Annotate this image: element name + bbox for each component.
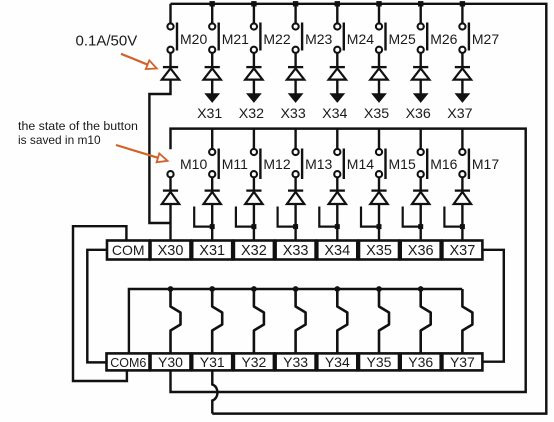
svg-text:Y35: Y35 (367, 354, 392, 370)
svg-text:Y31: Y31 (200, 354, 225, 370)
svg-text:Y32: Y32 (241, 354, 266, 370)
svg-text:Y36: Y36 (408, 354, 433, 370)
svg-text:X32: X32 (239, 106, 264, 122)
svg-text:M11: M11 (222, 156, 248, 172)
svg-text:M14: M14 (347, 156, 374, 172)
svg-text:X31: X31 (199, 243, 225, 259)
svg-text:Y37: Y37 (450, 354, 475, 370)
svg-text:Y33: Y33 (283, 354, 308, 370)
svg-text:X36: X36 (408, 243, 434, 259)
svg-text:X30: X30 (158, 243, 184, 259)
svg-text:M17: M17 (472, 156, 499, 172)
svg-text:M20: M20 (180, 31, 207, 47)
svg-text:X34: X34 (324, 243, 350, 259)
svg-text:X33: X33 (280, 106, 305, 122)
svg-text:X34: X34 (322, 106, 347, 122)
svg-text:is saved in m10: is saved in m10 (18, 133, 101, 147)
svg-text:X37: X37 (449, 243, 475, 259)
svg-text:M16: M16 (430, 156, 457, 172)
svg-text:M25: M25 (389, 31, 416, 47)
svg-text:M24: M24 (347, 31, 374, 47)
svg-text:M21: M21 (222, 31, 249, 47)
svg-text:M27: M27 (472, 31, 499, 47)
svg-text:0.1A/50V: 0.1A/50V (76, 33, 138, 50)
svg-text:M10: M10 (180, 156, 207, 172)
svg-text:X35: X35 (366, 243, 392, 259)
svg-text:X33: X33 (283, 243, 309, 259)
svg-text:X35: X35 (364, 106, 389, 122)
svg-text:X36: X36 (406, 106, 431, 122)
svg-text:X31: X31 (197, 106, 222, 122)
svg-text:COM: COM (112, 242, 145, 258)
svg-text:the state of the button: the state of the button (18, 119, 138, 133)
svg-text:M26: M26 (430, 31, 457, 47)
svg-text:M15: M15 (389, 156, 416, 172)
svg-text:Y30: Y30 (158, 354, 183, 370)
svg-text:COM6: COM6 (110, 356, 146, 370)
svg-text:M12: M12 (263, 156, 290, 172)
svg-text:M13: M13 (305, 156, 332, 172)
svg-text:Y34: Y34 (325, 354, 350, 370)
svg-text:X32: X32 (241, 243, 267, 259)
svg-text:M23: M23 (305, 31, 332, 47)
svg-text:M22: M22 (263, 31, 290, 47)
svg-text:X37: X37 (447, 106, 472, 122)
